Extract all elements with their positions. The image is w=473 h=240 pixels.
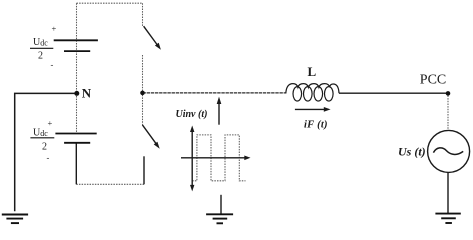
- svg-text:-: -: [47, 153, 50, 163]
- svg-text:Uinv (t): Uinv (t): [176, 109, 208, 120]
- svg-text:iF (t): iF (t): [304, 120, 328, 131]
- svg-text:2: 2: [38, 51, 43, 62]
- svg-text:N: N: [82, 85, 92, 100]
- svg-text:dc: dc: [40, 129, 48, 138]
- svg-text:Us (t): Us (t): [398, 145, 426, 159]
- svg-text:+: +: [52, 24, 57, 34]
- svg-text:+: +: [48, 118, 53, 128]
- svg-text:dc: dc: [40, 39, 48, 48]
- svg-text:2: 2: [42, 142, 47, 153]
- svg-text:PCC: PCC: [420, 73, 446, 88]
- svg-text:L: L: [308, 64, 317, 79]
- svg-text:-: -: [51, 60, 54, 70]
